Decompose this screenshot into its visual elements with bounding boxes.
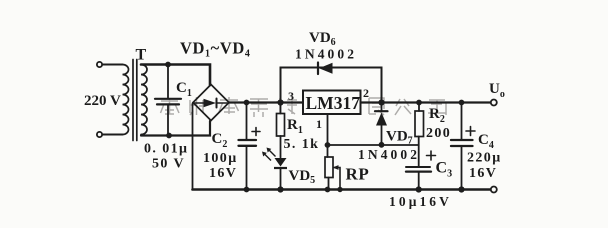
svg-text:220 V: 220 V — [84, 93, 121, 109]
svg-text:50 V: 50 V — [152, 157, 185, 172]
svg-text:5. 1k: 5. 1k — [284, 137, 320, 152]
svg-text:0. 01μ: 0. 01μ — [144, 142, 188, 157]
svg-text:2: 2 — [363, 86, 369, 100]
svg-text:16V: 16V — [469, 166, 497, 181]
svg-text:3: 3 — [288, 89, 294, 103]
svg-text:16V: 16V — [209, 166, 237, 181]
svg-text:200: 200 — [426, 126, 451, 141]
svg-text:1N4002: 1N4002 — [358, 147, 420, 162]
svg-text:T: T — [136, 47, 147, 64]
svg-text:100μ: 100μ — [203, 151, 238, 166]
svg-text:VD1~VD4: VD1~VD4 — [180, 39, 250, 60]
svg-text:220μ: 220μ — [467, 151, 502, 166]
svg-text:RP: RP — [346, 165, 370, 184]
svg-text:LM317: LM317 — [306, 93, 361, 113]
svg-text:10μ16V: 10μ16V — [389, 194, 452, 209]
svg-text:1: 1 — [316, 117, 322, 131]
svg-text:1N4002: 1N4002 — [295, 47, 357, 62]
